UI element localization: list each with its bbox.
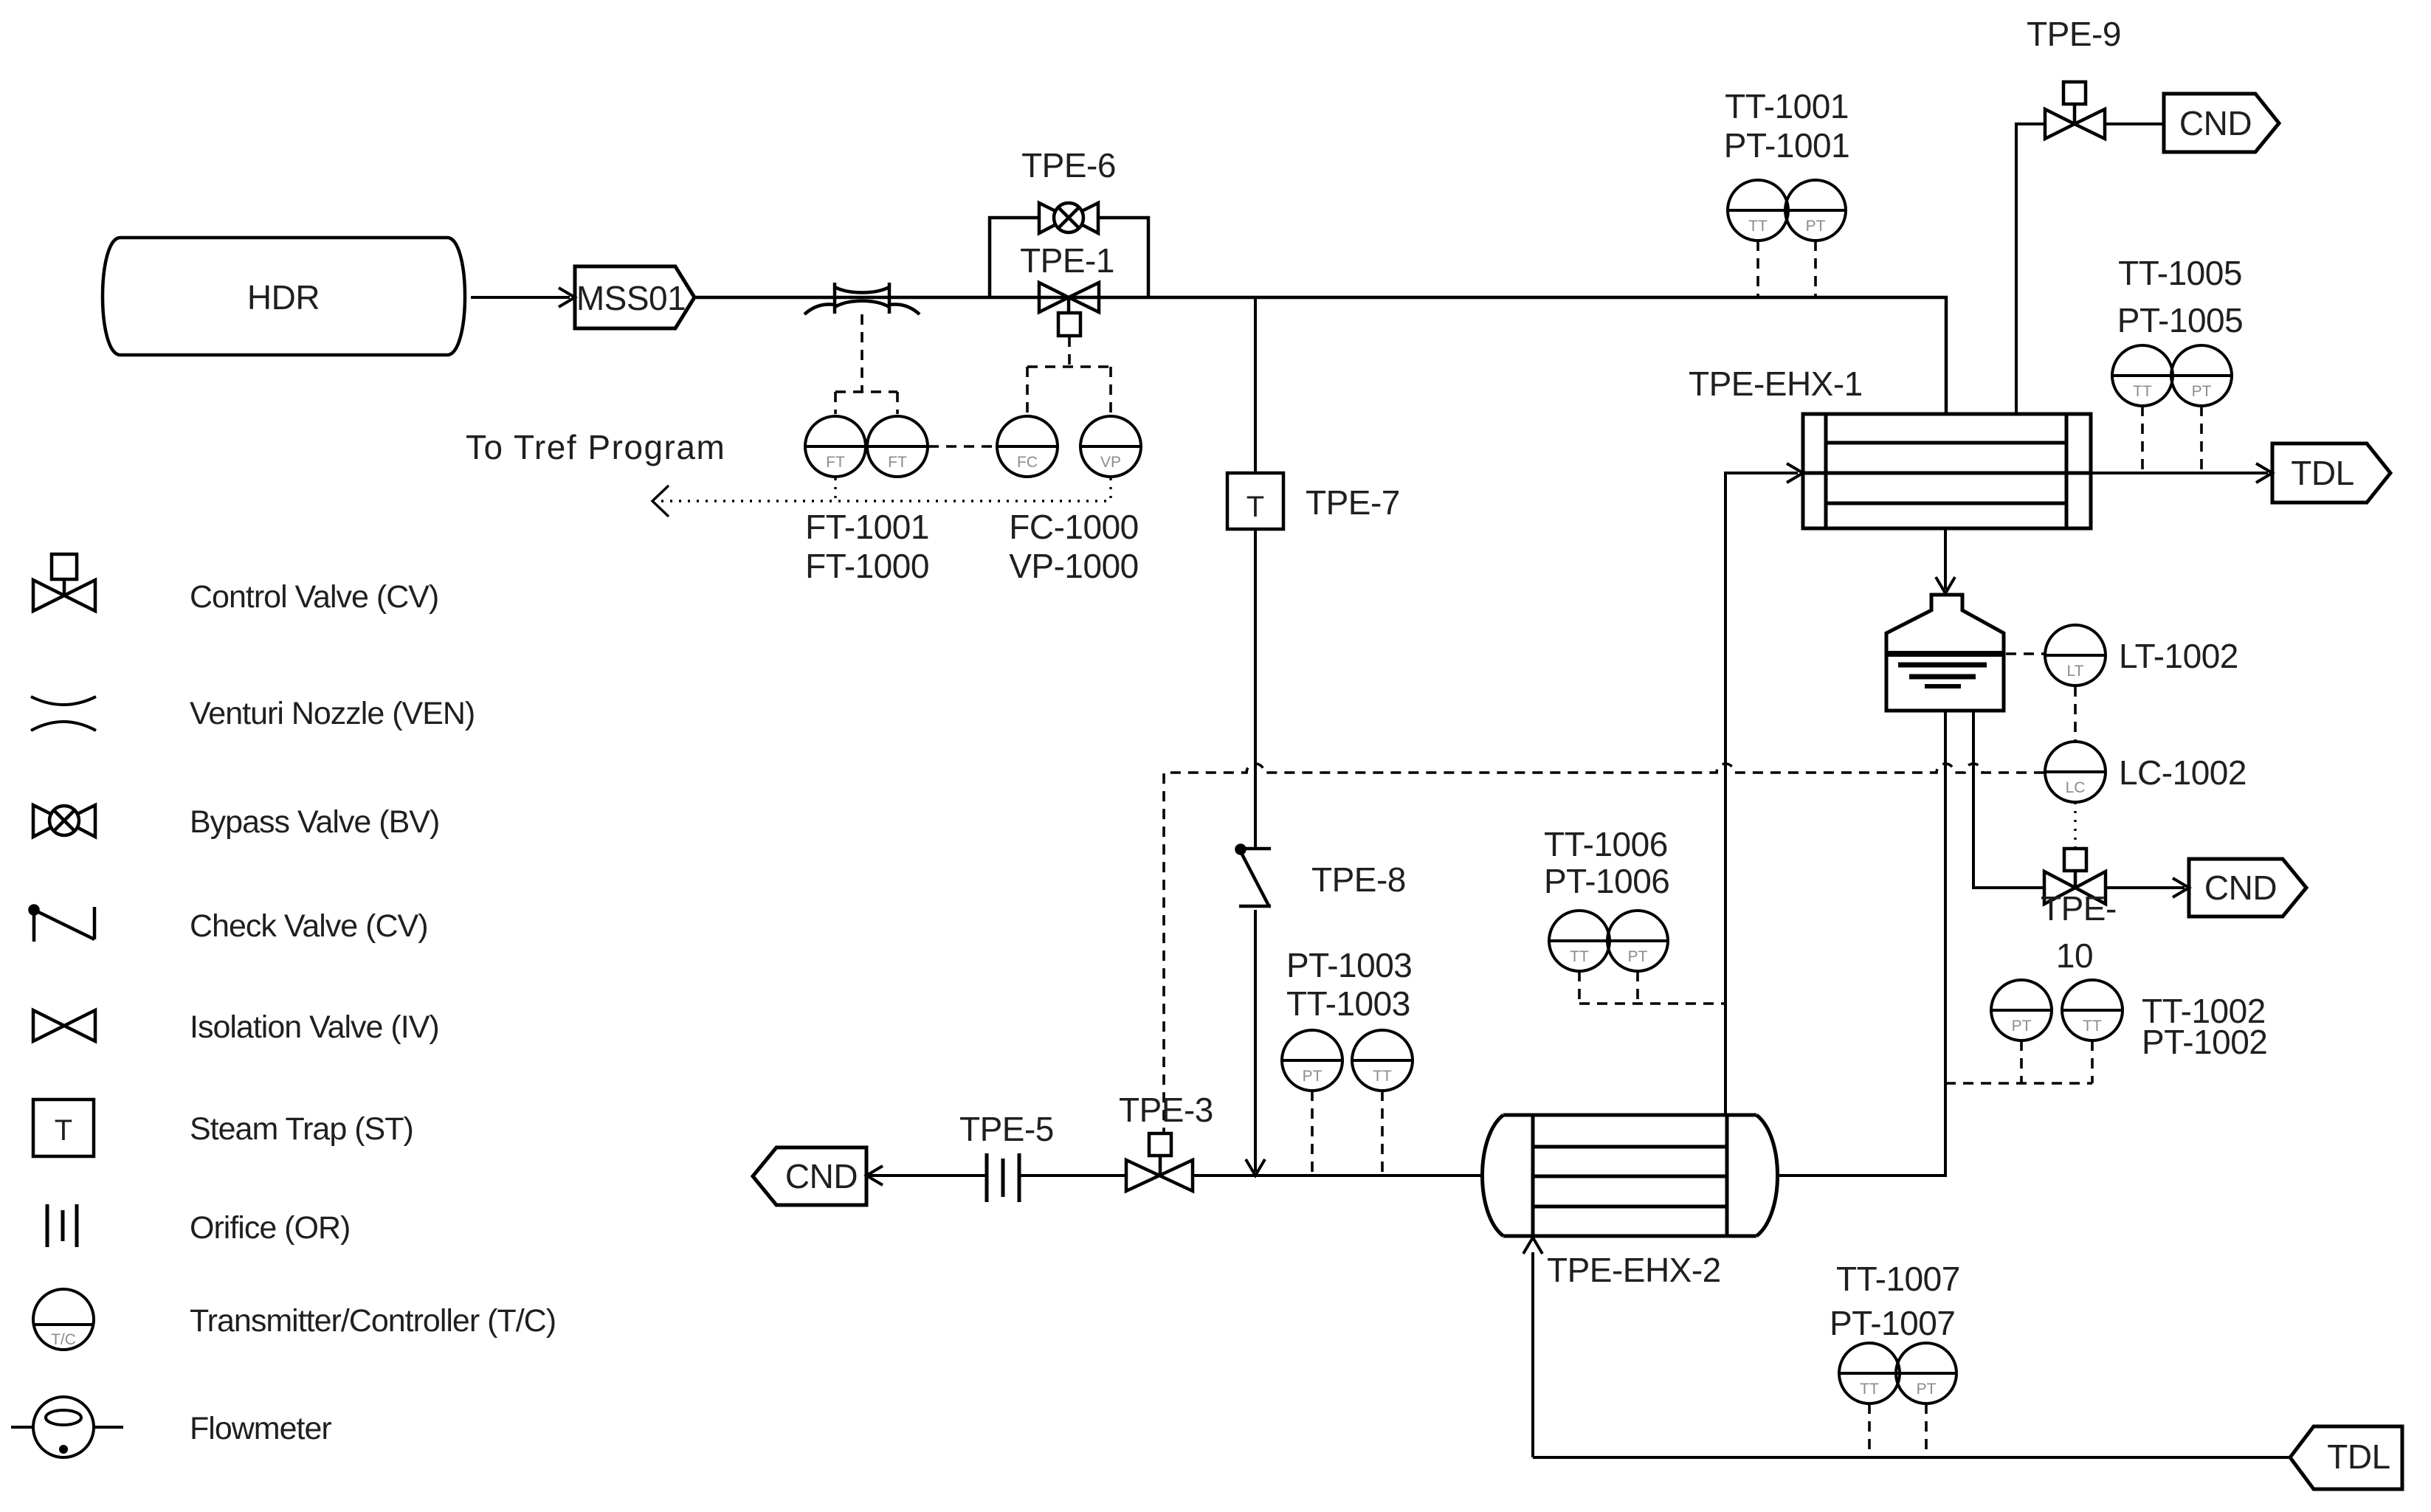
instrument LC-1002 bubble xyxy=(2045,742,2106,802)
svg-text:Orifice (OR): Orifice (OR) xyxy=(190,1210,350,1246)
instrument PT-1001 bubble xyxy=(1785,180,1846,241)
flag CND top xyxy=(2164,94,2279,152)
svg-text:TPE-9: TPE-9 xyxy=(2027,15,2121,53)
dashed signal TT/PT-1005 xyxy=(2142,406,2201,472)
svg-text:T: T xyxy=(55,1114,72,1147)
svg-text:To Tref Program: To Tref Program xyxy=(466,428,725,466)
wire EHX-2 to EHX-1 inlet xyxy=(1725,473,1798,1115)
svg-text:HDR: HDR xyxy=(247,278,320,317)
vessel HDR xyxy=(103,238,465,355)
svg-text:PT-1002: PT-1002 xyxy=(2142,1023,2267,1061)
control valve TPE-9 xyxy=(2045,82,2105,139)
svg-text:TDL: TDL xyxy=(2327,1437,2390,1476)
svg-text:PT-1006: PT-1006 xyxy=(1544,862,1669,900)
dashed signal TT/PT-1002 xyxy=(1945,1040,2092,1083)
svg-text:TT-1001: TT-1001 xyxy=(1725,87,1849,125)
svg-text:FT: FT xyxy=(888,454,907,471)
instrument PT-1007 bubble xyxy=(1896,1343,1956,1404)
svg-text:PT-1003: PT-1003 xyxy=(1286,946,1412,984)
instrument PT-1005 bubble xyxy=(2171,345,2232,406)
flag CND left xyxy=(753,1147,866,1205)
instrument PT-1003 bubble xyxy=(1282,1030,1342,1091)
instrument VP-1000 bubble xyxy=(1080,416,1141,477)
wire main steam line xyxy=(694,297,1946,414)
svg-text:Bypass Valve (BV): Bypass Valve (BV) xyxy=(190,804,439,840)
wire condensate line CND to EHX-2 xyxy=(866,1174,1482,1177)
svg-text:LC: LC xyxy=(2066,779,2086,796)
svg-text:TPE-5: TPE-5 xyxy=(959,1110,1054,1148)
svg-text:FT-1001: FT-1001 xyxy=(805,508,929,546)
svg-text:TT: TT xyxy=(1570,948,1589,965)
dashed signal PT/TT-1003 xyxy=(1312,1091,1382,1173)
svg-text:PT-1007: PT-1007 xyxy=(1830,1304,1955,1342)
dashed signal venturi to FT instruments xyxy=(835,314,897,414)
dashed signal TT/PT-1001 to main line xyxy=(1758,241,1816,296)
svg-text:T: T xyxy=(1246,491,1264,523)
wire bypass loop xyxy=(990,218,1148,297)
heat exchanger TPE-EHX-2 xyxy=(1483,1115,1778,1236)
wire EHX-1 to flash drum xyxy=(1944,528,1947,590)
svg-text:TT: TT xyxy=(1748,218,1768,235)
legend flowmeter symbol xyxy=(11,1397,123,1457)
svg-text:PT-1001: PT-1001 xyxy=(1724,126,1849,165)
svg-text:PT-1005: PT-1005 xyxy=(2117,301,2243,339)
flag CND right xyxy=(2189,859,2306,916)
svg-text:TPE-EHX-1: TPE-EHX-1 xyxy=(1689,365,1863,403)
svg-text:Venturi Nozzle (VEN): Venturi Nozzle (VEN) xyxy=(190,696,475,731)
instrument PT-1006 bubble xyxy=(1607,911,1668,971)
wire steam trap branch xyxy=(1254,297,1257,1172)
svg-text:Steam Trap (ST): Steam Trap (ST) xyxy=(190,1111,413,1147)
steam trap TPE-7 xyxy=(1227,473,1283,529)
dotted signal LC to TPE-10 xyxy=(2074,802,2076,847)
legend bypass valve symbol xyxy=(33,805,95,837)
wire drum outlet to EHX-2 shell xyxy=(1776,711,1945,1176)
svg-text:Control Valve (CV): Control Valve (CV) xyxy=(190,579,438,615)
control valve TPE-10 xyxy=(2044,849,2106,904)
instrument TT-1005 bubble xyxy=(2112,345,2173,406)
control valve TPE-3 xyxy=(1126,1133,1193,1191)
svg-text:FT: FT xyxy=(826,454,845,471)
svg-text:10: 10 xyxy=(2056,936,2093,975)
svg-text:Check Valve (CV): Check Valve (CV) xyxy=(190,908,428,944)
dashed signal TT/PT-1007 xyxy=(1869,1404,1926,1456)
flag MSS01 xyxy=(575,266,694,328)
dashed signal TPE-1 actuator to FC/VP xyxy=(1027,336,1111,414)
svg-text:TPE-: TPE- xyxy=(2041,889,2117,928)
wire drum outlet to TPE-10 xyxy=(1973,711,2044,888)
svg-text:TT: TT xyxy=(2133,383,2152,400)
svg-text:FC-1000: FC-1000 xyxy=(1009,508,1138,546)
dashed signal FT to FC xyxy=(928,445,997,448)
wire TPE-9 branch xyxy=(2016,124,2164,414)
svg-text:VP: VP xyxy=(1100,454,1121,471)
svg-text:T/C: T/C xyxy=(51,1331,76,1348)
wire TPE-10 to CND xyxy=(2106,886,2185,889)
instrument TT-1002 bubble xyxy=(2062,980,2123,1040)
dotted signal to Tref program with arrow xyxy=(652,478,1111,517)
wire TDL return line xyxy=(1533,1456,2290,1459)
legend control valve symbol xyxy=(33,554,95,611)
legend steam trap symbol xyxy=(33,1100,94,1156)
svg-text:PT: PT xyxy=(1628,948,1648,965)
dashed control line LC-1002 to TPE-3 with hops xyxy=(1164,764,2044,1132)
svg-text:LC-1002: LC-1002 xyxy=(2119,753,2246,792)
bypass valve TPE-6 xyxy=(1039,203,1098,233)
svg-text:VP-1000: VP-1000 xyxy=(1009,547,1139,585)
svg-text:TT: TT xyxy=(1373,1068,1392,1085)
wire HDR to MSS01 xyxy=(471,296,570,299)
svg-text:Isolation Valve (IV): Isolation Valve (IV) xyxy=(190,1009,439,1045)
dashed signal TT/PT-1006 xyxy=(1579,971,1725,1004)
legend check valve symbol xyxy=(30,906,95,942)
instrument TT-1003 bubble xyxy=(1352,1030,1413,1091)
flag TDL top xyxy=(2272,443,2390,503)
wire TDL return to EHX-2 bottom xyxy=(1531,1252,1534,1457)
svg-text:PT: PT xyxy=(2192,383,2212,400)
svg-text:TPE-8: TPE-8 xyxy=(1311,860,1406,899)
svg-text:PT: PT xyxy=(1303,1068,1323,1085)
svg-text:Transmitter/Controller (T/C): Transmitter/Controller (T/C) xyxy=(190,1303,556,1339)
svg-text:TPE-3: TPE-3 xyxy=(1119,1091,1213,1129)
instrument TT-1006 bubble xyxy=(1549,911,1610,971)
svg-text:TT-1007: TT-1007 xyxy=(1836,1260,1960,1298)
instrument TT-1007 bubble xyxy=(1839,1343,1900,1404)
svg-text:CND: CND xyxy=(2204,869,2277,907)
svg-text:LT: LT xyxy=(2067,663,2084,680)
check valve TPE-8 xyxy=(1237,846,1272,907)
svg-text:CND: CND xyxy=(2179,104,2252,142)
wire EHX-1 outlet to TDL xyxy=(2091,472,2268,474)
svg-text:MSS01: MSS01 xyxy=(576,279,686,317)
instrument FC-1000 bubble xyxy=(997,416,1058,477)
dashed signal drum to LT-1002 xyxy=(2006,652,2044,655)
svg-text:TT: TT xyxy=(1860,1381,1879,1398)
legend orifice symbol xyxy=(47,1204,77,1247)
svg-text:TT-1003: TT-1003 xyxy=(1286,984,1410,1023)
instrument PT-1002 bubble xyxy=(1991,980,2052,1040)
svg-text:PT: PT xyxy=(2012,1018,2032,1035)
svg-text:FT-1000: FT-1000 xyxy=(805,547,929,585)
svg-text:CND: CND xyxy=(785,1157,858,1195)
legend isolation valve symbol xyxy=(33,1010,95,1041)
svg-text:TPE-EHX-2: TPE-EHX-2 xyxy=(1547,1251,1721,1289)
orifice TPE-5 xyxy=(987,1153,1019,1202)
control valve TPE-1 xyxy=(1039,283,1099,336)
svg-text:FC: FC xyxy=(1017,454,1038,471)
instrument TT-1001 bubble xyxy=(1728,180,1788,241)
flash drum vessel xyxy=(1886,595,2004,711)
svg-text:LT-1002: LT-1002 xyxy=(2119,637,2238,675)
venturi nozzle on main line xyxy=(804,283,920,314)
instrument FT-1001 bubble xyxy=(805,416,866,477)
svg-text:PT: PT xyxy=(1806,218,1826,235)
svg-text:TPE-1: TPE-1 xyxy=(1020,241,1114,280)
flag TDL bottom xyxy=(2290,1426,2402,1489)
dashed signal LT to LC xyxy=(2074,686,2077,741)
svg-text:Flowmeter: Flowmeter xyxy=(190,1411,331,1446)
svg-text:TDL: TDL xyxy=(2291,454,2354,492)
instrument FT-1000 bubble xyxy=(867,416,928,477)
instrument LT-1002 bubble xyxy=(2045,625,2106,686)
legend venturi symbol xyxy=(31,697,96,731)
heat exchanger TPE-EHX-1 xyxy=(1803,414,2091,528)
svg-text:TT-1005: TT-1005 xyxy=(2118,254,2242,292)
legend transmitter/controller symbol xyxy=(33,1289,94,1350)
svg-text:TT-1006: TT-1006 xyxy=(1544,825,1668,863)
svg-text:PT: PT xyxy=(1917,1381,1937,1398)
svg-text:TPE-7: TPE-7 xyxy=(1306,483,1400,522)
svg-text:TT: TT xyxy=(2083,1018,2102,1035)
svg-text:TPE-6: TPE-6 xyxy=(1021,146,1116,184)
